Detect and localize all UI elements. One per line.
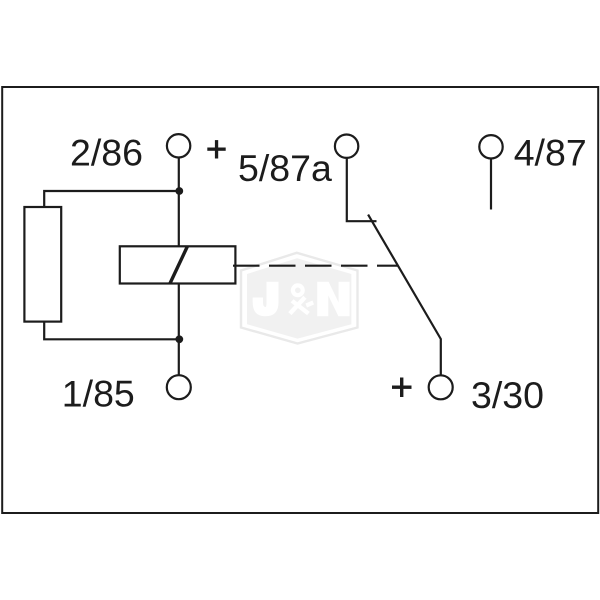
terminal 2/86 <box>167 134 190 157</box>
wire: coil bottom down to 1/85 terminal <box>178 284 180 376</box>
relay coil <box>120 246 236 283</box>
junction: bottom node <box>175 335 183 343</box>
watermark J&N logo <box>241 253 358 344</box>
wire: 4/87 stub <box>490 159 492 210</box>
switch blade from 5/87a contact to 3/30 <box>368 215 441 376</box>
svg-text:1/85: 1/85 <box>62 373 135 415</box>
border frame (decorative) <box>2 87 598 513</box>
svg-text:3/30: 3/30 <box>471 374 544 416</box>
wire: bottom branch to resistor <box>44 322 179 340</box>
resistor (parallel with coil) <box>24 207 61 322</box>
terminal 4/87 <box>479 135 502 158</box>
wire: 5/87a lead down with fixed-contact hook <box>347 158 377 221</box>
junction: top node <box>175 187 183 195</box>
wire: top branch to resistor <box>44 191 179 207</box>
terminal 3/30 <box>429 375 453 399</box>
svg-text:5/87a: 5/87a <box>238 147 332 189</box>
svg-text:2/86: 2/86 <box>70 132 143 174</box>
plus sign at 3/30 <box>392 378 412 398</box>
terminal 1/85 <box>167 375 191 399</box>
terminal 5/87a <box>335 135 358 158</box>
svg-text:4/87: 4/87 <box>514 132 587 174</box>
plus sign at 2/86 <box>207 140 225 158</box>
wire: 2/86 vertical down to coil top <box>178 157 180 246</box>
dashed actuation line from coil to switch blade <box>233 265 399 267</box>
